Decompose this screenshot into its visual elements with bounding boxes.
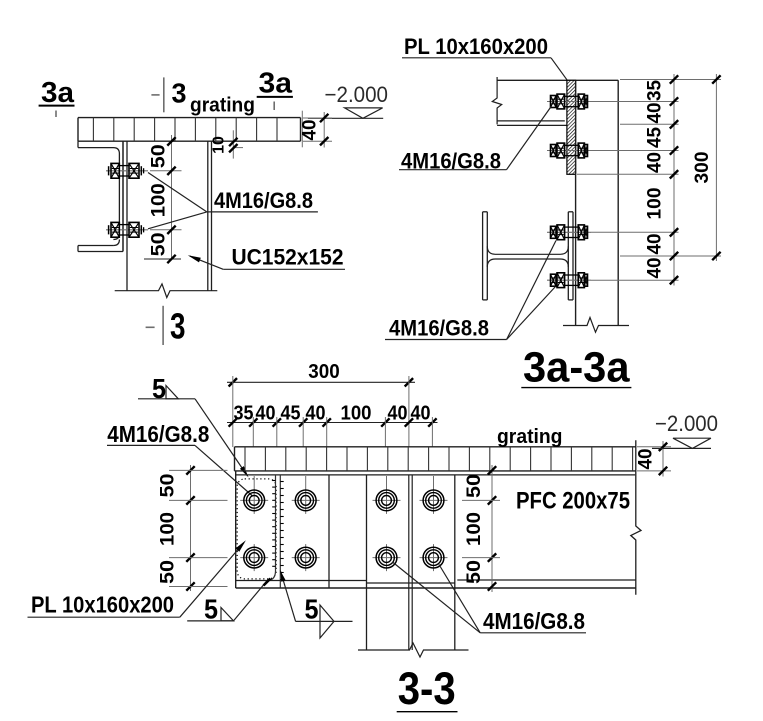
svg-text:10: 10 <box>210 136 227 154</box>
svg-text:PL 10x160x200: PL 10x160x200 <box>31 592 174 618</box>
bolt M16 plan c3r1 (detail 3) <box>373 476 401 514</box>
grating 40 thk dimension (detail 1) <box>300 111 333 148</box>
svg-text:45: 45 <box>281 403 301 425</box>
bolt M16 plan c1r1 (detail 3) <box>240 476 268 514</box>
bolt M16 row3 (detail 2) <box>547 225 591 240</box>
label 4M16/G8.8 (detail 3 left) <box>107 421 252 496</box>
svg-text:300: 300 <box>692 152 713 184</box>
section label 3a (right) <box>257 67 293 110</box>
bolt-row dimension chain 50/100/50 (detail 1) <box>144 135 182 263</box>
svg-text:4M16/G8.8: 4M16/G8.8 <box>214 188 313 213</box>
svg-text:50: 50 <box>158 560 179 584</box>
overall 300 dimension (detail 2) <box>692 74 721 261</box>
svg-text:40: 40 <box>645 234 666 255</box>
grating (detail 3) <box>235 447 636 471</box>
bolt M16 plan c3r2 (detail 3) <box>373 544 401 571</box>
300 dimension (detail 3) <box>227 361 415 447</box>
label PL 10x160x200 (detail 2) <box>402 34 567 80</box>
section label 3a (left) <box>39 77 75 117</box>
bolt M16 plan c1r2 (detail 3) <box>240 544 268 571</box>
svg-text:40: 40 <box>645 258 666 279</box>
weld symbol 5 (top, detail 3) <box>138 373 249 477</box>
weld symbol 5 (bottom left, detail 3) <box>187 579 270 625</box>
left dimension chain 50/100/50 (detail 3) <box>158 465 228 591</box>
label 4M16/G8.8 upper (detail 2) <box>399 106 552 174</box>
dimension chain 35/40/45/40/100/40/40 (detail 3) <box>227 403 438 448</box>
svg-text:100: 100 <box>158 512 179 546</box>
title 3a-3a <box>521 344 631 392</box>
svg-text:3: 3 <box>170 306 186 347</box>
svg-text:grating: grating <box>497 426 563 448</box>
svg-text:4M16/G8.8: 4M16/G8.8 <box>389 316 489 341</box>
svg-text:40: 40 <box>645 152 666 173</box>
svg-text:40: 40 <box>300 120 321 141</box>
beam flange edge double line (detail 2) <box>497 120 565 122</box>
svg-text:3-3: 3-3 <box>398 663 456 714</box>
beam top edge (detail 2) <box>497 79 618 81</box>
svg-text:−2.000: −2.000 <box>655 411 718 436</box>
svg-text:PL 10x160x200: PL 10x160x200 <box>404 34 548 59</box>
svg-text:5: 5 <box>305 594 319 625</box>
svg-text:3a-3a: 3a-3a <box>523 344 631 392</box>
hidden plate PL10x160x200 dotted outline (detail 3) <box>237 479 276 579</box>
plate 10 thk dimension (detail 1) <box>210 130 243 158</box>
right dimension chain 50/100/50 (detail 3) <box>462 465 500 592</box>
column break line (detail 1) <box>115 284 218 298</box>
beam right end with break (detail 3) <box>631 440 641 595</box>
channel bottom break (detail 2) <box>563 318 629 333</box>
level symbol -2.000 (detail 1) <box>308 82 388 118</box>
svg-text:100: 100 <box>464 512 485 546</box>
svg-text:50: 50 <box>149 232 170 256</box>
svg-text:50: 50 <box>149 144 170 168</box>
svg-text:35: 35 <box>645 80 666 101</box>
section mark 3 (bottom) <box>146 306 186 347</box>
title 3-3 <box>397 663 458 714</box>
bolt M16 row2 (detail 1) <box>106 222 148 237</box>
label PL 10x160x200 (detail 3) <box>28 540 246 617</box>
40 grating dimension (detail 3) <box>636 441 672 477</box>
PFC channel section (detail 1) <box>78 141 123 251</box>
beam left end with break (detail 2) <box>492 77 501 124</box>
svg-text:35: 35 <box>234 403 254 425</box>
svg-text:5: 5 <box>204 594 218 625</box>
section mark 3 (top) <box>151 77 186 112</box>
UC152x152 column cross-section (detail 2) <box>483 212 573 300</box>
svg-text:50: 50 <box>158 474 179 498</box>
svg-text:40: 40 <box>645 103 666 124</box>
svg-text:4M16/G8.8: 4M16/G8.8 <box>483 608 585 634</box>
label UC152x152 with leader arrow <box>188 245 345 270</box>
plate PL10x160x200 hatched section (detail 2) <box>567 80 576 174</box>
label 4M16/G8.8 (detail 3 right) <box>393 562 587 634</box>
svg-text:45: 45 <box>645 127 666 148</box>
svg-text:100: 100 <box>645 188 666 220</box>
label 4M16/G8.8 (detail 1) <box>148 173 318 229</box>
bolt M16 row4 (detail 2) <box>547 273 591 288</box>
bolt M16 plan c2r2 (detail 3) <box>292 544 320 571</box>
bolt M16 row2 (detail 2) <box>547 143 591 158</box>
svg-text:3a: 3a <box>41 77 75 109</box>
svg-text:−2.000: −2.000 <box>325 82 389 107</box>
channel end weld seam (detail 3) <box>266 475 284 588</box>
svg-text:40: 40 <box>411 403 431 425</box>
svg-text:3a: 3a <box>259 67 293 99</box>
beam top flange inner line (detail 3) <box>236 474 636 476</box>
vertical dimension chain 35/40/45/40/100/40/40 (detail 2) <box>577 74 721 286</box>
grating (detail 1) <box>78 118 301 142</box>
UC column seen through beam (detail 3) <box>367 475 455 650</box>
PFC channel face (detail 2) <box>576 80 619 325</box>
svg-text:40: 40 <box>636 449 657 470</box>
svg-text:4M16/G8.8: 4M16/G8.8 <box>107 421 209 447</box>
svg-text:50: 50 <box>464 560 485 584</box>
svg-text:300: 300 <box>308 361 339 383</box>
beam bottom edges (detail 3) <box>236 580 636 588</box>
UC152x152 column (detail 1) <box>127 141 212 291</box>
svg-text:PFC 200x75: PFC 200x75 <box>516 488 630 515</box>
weld symbol 5 (bottom right, detail 3) <box>280 571 352 639</box>
svg-text:3: 3 <box>172 77 187 108</box>
level symbol -2.000 (detail 3) <box>652 411 718 448</box>
svg-text:100: 100 <box>341 403 372 425</box>
svg-text:40: 40 <box>388 403 408 425</box>
svg-text:50: 50 <box>464 474 485 498</box>
bolt M16 plan c2r1 (detail 3) <box>292 476 320 514</box>
svg-text:40: 40 <box>306 403 326 425</box>
svg-text:100: 100 <box>149 183 170 217</box>
bolt M16 plan c4r2 (detail 3) <box>420 544 448 571</box>
svg-text:40: 40 <box>256 403 276 425</box>
svg-text:UC152x152: UC152x152 <box>232 245 344 270</box>
connection plates outline (detail 3) <box>236 471 329 588</box>
svg-text:grating: grating <box>190 95 255 117</box>
bolt M16 plan c4r1 (detail 3) <box>420 476 448 514</box>
bolt M16 row1 (detail 1) <box>106 163 148 178</box>
label 4M16/G8.8 lower (detail 2) <box>385 241 556 341</box>
bolt M16 row1 (detail 2) <box>547 94 591 109</box>
column break line (detail 3) <box>358 643 469 657</box>
